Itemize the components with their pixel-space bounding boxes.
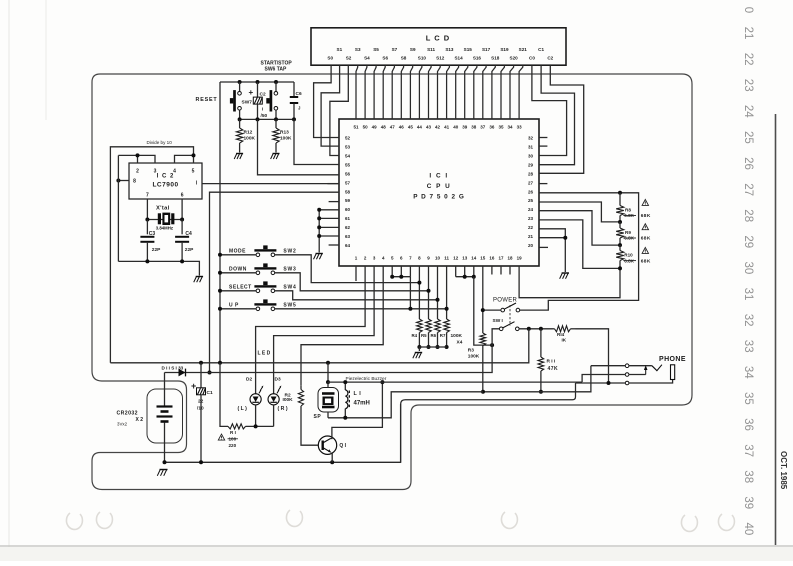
capacitor C1 electrolytic 22/10 — [191, 363, 213, 463]
svg-text:S18: S18 — [491, 55, 500, 60]
svg-text:SW6 TAP: SW6 TAP — [265, 67, 288, 73]
svg-text:6: 6 — [181, 193, 184, 199]
phone jack PHONE — [591, 356, 686, 385]
wire: C2 node to CPU pin 56 — [258, 119, 340, 174]
wire: V+ bus to buzzer top — [327, 363, 329, 382]
resistor R2 100K — [283, 386, 319, 445]
svg-text:15: 15 — [480, 256, 486, 261]
svg-text:R4: R4 — [412, 333, 418, 338]
svg-text:R7: R7 — [440, 333, 446, 338]
wire: IC2 pins 2,3 top link — [118, 155, 155, 163]
wire: CPU pin 58 to D1 bus rail — [210, 192, 340, 372]
svg-text:31: 31 — [528, 145, 534, 150]
resistor R3 100K on CPU pin 15 — [468, 266, 486, 392]
wire: oscillator ground bus — [118, 261, 199, 275]
node: V+ bus junctions — [199, 361, 203, 365]
svg-text:41: 41 — [444, 124, 450, 129]
svg-text:25: 25 — [528, 198, 534, 203]
svg-text:R8: R8 — [625, 207, 631, 212]
svg-text:S4: S4 — [364, 55, 370, 60]
svg-text:S12: S12 — [436, 55, 445, 60]
svg-text:3: 3 — [154, 169, 157, 175]
svg-text:S5: S5 — [373, 47, 379, 52]
transistor Q1 — [318, 436, 346, 454]
svg-text:46: 46 — [399, 124, 405, 129]
svg-text:62: 62 — [345, 225, 351, 230]
svg-text:14: 14 — [471, 256, 477, 261]
LED D2 (L) — [238, 377, 264, 427]
svg-text:SP: SP — [314, 414, 322, 420]
svg-text:0: 0 — [742, 7, 754, 13]
svg-text:40: 40 — [453, 124, 459, 129]
svg-text:S8: S8 — [401, 55, 407, 60]
svg-text:58: 58 — [345, 189, 351, 194]
wire: phone middle contact from buzzer line — [582, 375, 625, 383]
svg-text:50: 50 — [363, 124, 369, 129]
wire: CPU pin 25 staircase to R8/R9 junction — [539, 202, 620, 222]
wire: CPU pin 19 to R10 bottom — [519, 266, 620, 298]
svg-text:SELECT: SELECT — [229, 285, 252, 291]
piezoelectric buzzer SP — [314, 382, 339, 420]
wire: buzzer top line to phone middle contact — [328, 381, 582, 383]
svg-text:35: 35 — [742, 392, 754, 405]
svg-text:C2: C2 — [260, 92, 266, 98]
svg-text:220: 220 — [229, 443, 237, 448]
svg-text:11: 11 — [444, 256, 449, 261]
right margin ruler line — [775, 114, 777, 545]
wire: phone sleeve contact line from ground riser and R14 — [576, 382, 626, 384]
svg-text:47mH: 47mH — [354, 401, 370, 407]
wire: CPU pin 23 staircase to R10 bottom — [539, 220, 620, 269]
svg-text:S11: S11 — [427, 47, 435, 52]
svg-text:I C 2: I C 2 — [157, 174, 175, 180]
svg-text:100K: 100K — [468, 354, 480, 360]
svg-text:61: 61 — [345, 216, 351, 221]
svg-text:26: 26 — [528, 189, 534, 194]
wire: IC2 pin 1 to CPU pin 57 — [202, 183, 339, 185]
wires: CPU pins 60-63 tied to ground — [317, 208, 339, 253]
resistor R9 68K — [616, 220, 631, 245]
ground (oscillator) — [196, 276, 203, 278]
resistor R4 — [417, 266, 423, 349]
wire: CPU right pin stubs 32,31,27,20 — [539, 137, 547, 139]
svg-text:I: I — [262, 107, 263, 112]
svg-text:27: 27 — [528, 180, 534, 185]
svg-text:48: 48 — [381, 124, 387, 129]
svg-text:R13: R13 — [280, 130, 289, 136]
svg-text:L C D: L C D — [426, 34, 450, 43]
svg-text:100K: 100K — [244, 136, 256, 142]
wire: CPU pins 5,6,7 tied — [390, 266, 412, 311]
svg-text:44: 44 — [417, 124, 423, 129]
wire: CPU pins 21,22 to ground — [539, 229, 567, 272]
svg-text:22: 22 — [198, 399, 204, 405]
node: top control bus y=82 — [220, 81, 294, 83]
LED D3 (R) — [268, 377, 288, 427]
svg-text:R5: R5 — [421, 333, 427, 338]
svg-text:R9: R9 — [625, 230, 631, 235]
wire: ground bus — [165, 404, 401, 462]
svg-text:D I I S I 33: D I I S I 33 — [162, 365, 184, 370]
svg-text:28: 28 — [742, 209, 754, 222]
svg-text:S3: S3 — [355, 47, 361, 52]
svg-text:47: 47 — [390, 124, 396, 129]
svg-text:60: 60 — [345, 207, 351, 212]
wire: Q1 collector to buzzer top line — [331, 382, 383, 438]
wire: IC2 left rail — [117, 155, 119, 261]
wire: CPU pin 1 stub — [355, 266, 357, 281]
svg-text:I C I: I C I — [429, 173, 448, 180]
svg-text:OCT. 1985: OCT. 1985 — [779, 451, 788, 490]
capacitor C3 22P — [140, 220, 161, 262]
svg-text:SW2: SW2 — [283, 249, 296, 255]
switch SW3 (DOWN) — [218, 263, 297, 274]
svg-text:56: 56 — [345, 171, 351, 176]
svg-text:5: 5 — [192, 169, 195, 175]
ground (R4-R7) — [415, 352, 422, 354]
svg-text:C6: C6 — [296, 91, 302, 97]
svg-text:17: 17 — [498, 256, 504, 261]
svg-text:28: 28 — [528, 171, 534, 176]
svg-text:S10: S10 — [418, 55, 427, 60]
svg-text:X 2: X 2 — [136, 417, 144, 423]
wire: CPU left pin stubs 57,59,64 — [327, 183, 339, 185]
svg-text:68K: 68K — [641, 236, 651, 242]
svg-text:100K: 100K — [280, 136, 292, 142]
svg-text:49: 49 — [372, 124, 378, 129]
svg-text:S7: S7 — [392, 47, 398, 52]
wire: main V+ bus to SW1 — [110, 329, 528, 363]
warning triangle (R10) — [642, 247, 648, 253]
svg-text:POWER: POWER — [493, 298, 518, 304]
crystal X'tal 3.84MHz — [145, 199, 184, 230]
wire: divide-by-10 feedback — [110, 147, 193, 363]
ground (R13) — [273, 153, 280, 155]
LCD module — [311, 28, 566, 65]
svg-text:68K: 68K — [641, 258, 651, 264]
IC2 LC7900 — [129, 163, 202, 199]
svg-text:S21: S21 — [519, 47, 528, 52]
svg-text:L E D: L E D — [258, 351, 271, 357]
svg-text:C1: C1 — [207, 390, 213, 396]
svg-text:C2: C2 — [547, 55, 553, 60]
schematic border outline — [92, 74, 692, 490]
wire: buzzer bottom / L1 to R3 rail — [328, 392, 483, 418]
svg-text:Divide by 10: Divide by 10 — [147, 140, 173, 145]
wire: R4-R7 common to ground — [419, 347, 446, 351]
wire: CPU pin 26 to R8 top rail and SW1 upper pole — [520, 193, 639, 310]
svg-text:2: 2 — [136, 169, 139, 175]
wire: IC2 pins 4,5 top link — [175, 155, 194, 163]
svg-text:R6: R6 — [431, 333, 437, 338]
svg-text:S2: S2 — [346, 55, 352, 60]
diode D1 1S133 — [162, 329, 500, 377]
svg-text:52: 52 — [345, 136, 351, 141]
svg-text:SW4: SW4 — [283, 285, 296, 291]
ruler numbers — [742, 7, 754, 536]
svg-text:32: 32 — [528, 136, 534, 141]
svg-text:18: 18 — [507, 256, 513, 261]
switch SW1 (lower pole) — [493, 305, 520, 331]
svg-text:S9: S9 — [410, 47, 416, 52]
warning triangle (R1) — [218, 434, 224, 440]
ground (battery) — [159, 469, 167, 471]
wires: LCD S0,S1,S2 via left nest to CPU pins 52,53,54 — [314, 65, 349, 155]
svg-text:PHONE: PHONE — [659, 356, 686, 363]
svg-text:22: 22 — [528, 225, 534, 230]
svg-text:29: 29 — [528, 162, 534, 167]
svg-text:21: 21 — [528, 234, 534, 239]
svg-text:MODE: MODE — [229, 249, 246, 255]
svg-text:S20: S20 — [510, 55, 519, 60]
wire: SW1 lower pole output — [519, 328, 552, 330]
svg-text:/10: /10 — [197, 406, 204, 412]
svg-text:37: 37 — [480, 124, 486, 129]
svg-text:32: 32 — [742, 314, 754, 327]
wire: SW4 to R6 node — [275, 291, 438, 300]
ground (CPU pin 21/22) — [562, 272, 569, 274]
svg-text:39: 39 — [462, 124, 468, 129]
wire: CPU pin 24 staircase to R9/R10 junction — [539, 211, 620, 245]
svg-text:26: 26 — [742, 157, 754, 170]
switch SW4 (SELECT) — [218, 281, 297, 292]
wire: pin15/R3 rail to SW1 upper pole — [483, 309, 501, 311]
svg-text:51: 51 — [353, 124, 359, 129]
wire: CPU pins 16,17,18 stubs — [492, 266, 510, 275]
svg-text:13: 13 — [462, 256, 468, 261]
svg-text:IK: IK — [562, 338, 567, 343]
svg-text:57: 57 — [345, 180, 351, 185]
svg-text:R I I: R I I — [547, 359, 556, 365]
svg-text:19: 19 — [517, 256, 523, 261]
svg-text:8: 8 — [133, 179, 136, 185]
svg-text:C4: C4 — [185, 231, 192, 237]
svg-text:S15: S15 — [464, 47, 473, 52]
svg-text:3.84MHz: 3.84MHz — [156, 225, 173, 230]
resistor R6 — [435, 266, 441, 349]
resistor R8 68K — [616, 193, 631, 222]
warning triangle (R9) — [642, 224, 648, 230]
svg-text:S13: S13 — [445, 47, 454, 52]
svg-text:C3: C3 — [149, 231, 156, 237]
resistor R13 100K — [273, 119, 292, 152]
svg-text:R I: R I — [230, 430, 236, 435]
svg-text:S16: S16 — [473, 55, 482, 60]
ground (R12) — [236, 153, 243, 155]
svg-text:30: 30 — [528, 153, 534, 158]
svg-text:23: 23 — [528, 216, 534, 221]
svg-text:S1: S1 — [337, 47, 343, 52]
svg-text:X4: X4 — [457, 340, 463, 346]
svg-text:S17: S17 — [482, 47, 491, 52]
svg-text:27: 27 — [742, 183, 754, 196]
wire: bus to CPU pin 55 — [294, 119, 339, 164]
capacitor C6 — [290, 82, 302, 119]
svg-text:C1: C1 — [538, 47, 544, 52]
svg-text:33: 33 — [742, 340, 754, 353]
svg-text:31: 31 — [742, 288, 754, 301]
svg-text:P D 7 5 0 2 G: P D 7 5 0 2 G — [413, 194, 465, 201]
svg-text:SW7: SW7 — [242, 100, 253, 106]
inductor L1 47mH — [345, 382, 370, 418]
svg-text:38: 38 — [742, 470, 754, 483]
switch SW2 (MODE) — [218, 245, 297, 256]
svg-text:( L ): ( L ) — [238, 406, 248, 412]
svg-text:22P: 22P — [152, 247, 161, 253]
svg-text:12: 12 — [453, 256, 459, 261]
svg-text:64: 64 — [345, 243, 351, 248]
svg-text:U P: U P — [229, 303, 239, 309]
resistor R11 47K — [538, 329, 558, 394]
svg-text:SW3: SW3 — [283, 267, 296, 273]
switch SW1 POWER (upper pole) — [493, 298, 520, 312]
svg-text:36: 36 — [742, 418, 754, 431]
svg-text:DOWN: DOWN — [229, 267, 247, 273]
svg-text:29: 29 — [742, 235, 754, 248]
wire: buzzer-return line to phone tip — [483, 366, 591, 392]
svg-text:25: 25 — [742, 131, 754, 144]
svg-text:100K: 100K — [451, 333, 463, 339]
svg-text:Piezelectric Buzzer: Piezelectric Buzzer — [346, 376, 387, 382]
svg-text:L I: L I — [354, 391, 362, 397]
wire: CPU pins 12,13,14 tied — [456, 266, 494, 347]
resistor R7 — [444, 266, 450, 349]
resistor R10 68K — [616, 243, 633, 268]
CPU IC1 PD7502G — [339, 119, 539, 266]
svg-text:23: 23 — [742, 79, 754, 92]
svg-text:16: 16 — [489, 256, 495, 261]
svg-text:( R ): ( R ) — [278, 406, 288, 412]
svg-text:C0: C0 — [529, 55, 535, 60]
svg-text:21: 21 — [742, 27, 754, 40]
resistor R1 100/220 — [220, 363, 274, 448]
svg-text:39: 39 — [742, 496, 754, 509]
switch SW6 (start/stop tap) — [266, 82, 277, 119]
switch SW7 (reset) — [230, 82, 252, 119]
wire: CPU pin 3 to LED D3 — [274, 266, 375, 394]
svg-text:S14: S14 — [454, 55, 463, 60]
svg-text:37: 37 — [742, 444, 754, 457]
svg-text:34: 34 — [742, 366, 754, 379]
svg-text:R12: R12 — [244, 130, 253, 136]
svg-text:24: 24 — [528, 207, 534, 212]
wire: SW5 to R7 node — [275, 308, 447, 310]
wire: SW3 to R5 node — [275, 273, 429, 291]
wires: LCD S3-S21 to CPU top pins 51-33 — [356, 65, 523, 119]
resistor R12 100K — [236, 119, 255, 152]
svg-text:43: 43 — [426, 124, 432, 129]
svg-text:22P: 22P — [185, 247, 194, 253]
svg-text:38: 38 — [471, 124, 477, 129]
svg-text:24: 24 — [742, 105, 754, 118]
svg-text:68K: 68K — [641, 213, 651, 219]
svg-text:47K: 47K — [548, 366, 559, 372]
svg-text:RESET: RESET — [196, 97, 218, 103]
warning triangle (R8) — [642, 199, 648, 205]
wire: Q1 emitter to ground bus — [331, 453, 334, 463]
svg-text:R10: R10 — [624, 253, 633, 258]
svg-text:33: 33 — [517, 124, 523, 129]
svg-text:35: 35 — [498, 124, 504, 129]
svg-text:I00K: I00K — [283, 397, 294, 403]
ground (CPU pins 60-63) — [316, 253, 323, 255]
wire: SW2 to R4 node — [275, 255, 420, 283]
capacitor C4 22P — [175, 220, 194, 262]
svg-text:10: 10 — [435, 256, 441, 261]
page edge faint lines — [8, 0, 10, 555]
resistor R5 — [426, 266, 432, 349]
svg-text:/50: /50 — [261, 113, 268, 119]
svg-text:55: 55 — [345, 162, 351, 167]
svg-text:40: 40 — [742, 523, 754, 536]
svg-text:D3: D3 — [275, 377, 281, 383]
svg-text:R3: R3 — [468, 348, 474, 354]
svg-text:45: 45 — [408, 124, 414, 129]
svg-text:7: 7 — [146, 193, 149, 199]
svg-text:22: 22 — [742, 53, 754, 66]
svg-text:LC7900: LC7900 — [152, 182, 178, 189]
svg-text:42: 42 — [435, 124, 441, 129]
svg-text:36: 36 — [489, 124, 495, 129]
resistor R14 1K — [553, 326, 609, 383]
svg-text:30: 30 — [742, 262, 754, 275]
wire: CPU pin 2 to LED D2 — [256, 266, 366, 394]
svg-text:+: + — [249, 88, 254, 97]
svg-text:54: 54 — [345, 153, 351, 158]
binder hole scan arcs — [66, 513, 82, 529]
svg-text:4: 4 — [173, 169, 176, 175]
node: bus y=119.4 under SW7/C2/SW6 — [240, 118, 294, 120]
wire: CPU pin 4 to R2 — [301, 266, 383, 386]
battery CR2032 X2 3Vx2 — [117, 373, 183, 463]
svg-text:SW I: SW I — [493, 318, 504, 324]
svg-text:63: 63 — [345, 234, 351, 239]
switch SW5 (UP) — [218, 299, 297, 310]
svg-text:SW5: SW5 — [283, 303, 296, 309]
svg-text:D2: D2 — [246, 377, 252, 383]
svg-text:3Vx2: 3Vx2 — [117, 422, 128, 427]
svg-text:S19: S19 — [500, 47, 509, 52]
svg-text:20: 20 — [528, 243, 534, 248]
svg-text:X'tal: X'tal — [156, 206, 170, 212]
node: R10 bottom junction — [618, 266, 622, 270]
svg-text:59: 59 — [345, 198, 351, 203]
svg-text:S0: S0 — [327, 55, 333, 60]
svg-text:C P U: C P U — [427, 183, 451, 190]
svg-text:S6: S6 — [382, 55, 388, 60]
svg-text:+: + — [191, 381, 196, 391]
capacitor C2 electrolytic 1/50 — [249, 82, 268, 119]
svg-text:53: 53 — [345, 145, 351, 150]
svg-text:RI4: RI4 — [557, 332, 565, 337]
wire: switch column rail x=220 — [219, 82, 221, 363]
svg-text:Q I: Q I — [339, 443, 346, 449]
svg-text:34: 34 — [507, 124, 513, 129]
wire: ground riser to phone sleeve line — [401, 383, 576, 462]
wire: IC2 pin 8 to left rail — [118, 180, 129, 182]
wires: LCD C0,C1,C2 via right nest to CPU pins 30,29,28 — [532, 65, 584, 173]
svg-text:CR2032: CR2032 — [117, 411, 138, 417]
